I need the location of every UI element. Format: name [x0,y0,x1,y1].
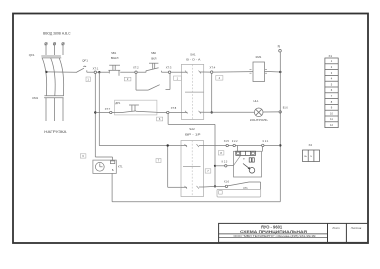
control tap junction [45,71,47,73]
svg-text:В - О - А: В - О - А [186,58,200,62]
thermostat box K2 [234,151,262,177]
phase wires top [46,45,63,55]
svg-text:ООО "МВИ ТЕХЭНЕРГО" г.Москва (: ООО "МВИ ТЕХЭНЕРГО" г.Москва (495) 931-9… [234,235,317,238]
svg-text:К 2.1: К 2.1 [263,140,269,143]
svg-text:ВВОД 380В А,В,С: ВВОД 380В А,В,С [43,32,71,36]
title block [219,223,368,242]
wire L1 XT:1 to SB1 [97,71,110,73]
XT:6 and KT1 contact [215,185,225,187]
middle control line y=112.5 [95,112,109,114]
wire: SA2 feed bus [168,146,181,188]
svg-text:Х1:6: Х1:6 [224,181,230,184]
drawing frame [13,14,368,244]
svg-text:SA1: SA1 [190,53,196,57]
svg-text:ХТ:8: ХТ:8 [171,106,177,110]
svg-text:Лист: Лист [331,226,340,230]
svg-text:ДР1: ДР1 [115,101,120,105]
right rail [279,52,281,202]
svg-text:КОНТРОЛЬ: КОНТРОЛЬ [250,118,268,122]
svg-text:ХТ:7: ХТ:7 [105,107,111,111]
svg-text:Листов: Листов [350,226,362,230]
svg-text:В1.6: В1.6 [283,106,289,109]
self-hold aux contact KM1 [136,73,170,90]
input terminals [45,43,65,46]
svg-text:ХТ:1: ХТ:1 [93,67,99,71]
node: junction coil KM1 to N rail [279,71,281,73]
svg-text:Х2: Х2 [309,143,313,147]
svg-text:Х1:5: Х1:5 [224,140,230,143]
svg-text:QF1: QF1 [82,59,88,63]
svg-text:К 2.3: К 2.3 [222,161,228,164]
svg-text:НАГРУЗКА: НАГРУЗКА [44,130,67,134]
svg-text:СХЕМА ПРИНЦИПИАЛЬНАЯ: СХЕМА ПРИНЦИПИАЛЬНАЯ [240,229,307,234]
K2.3 line [215,165,225,167]
svg-text:SB2: SB2 [151,51,157,55]
svg-text:ВЫКЛ: ВЫКЛ [111,56,119,60]
svg-text:ХТ:4: ХТ:4 [210,66,216,70]
left rails [95,72,181,160]
svg-text:ВР - 1Р: ВР - 1Р [185,133,201,137]
svg-text:QF1: QF1 [29,53,35,57]
node: junction left rail line / SA2 bus [167,144,169,146]
KT1 bottom lead and long bottom wire [112,173,280,201]
node: junction on L1 at XT:1 [98,71,100,73]
line through SA1 bottom to lamp [169,111,181,113]
line SA2 to XT:5, K2.2, K2.1, rail [204,144,227,146]
svg-text:ХТ:3: ХТ:3 [166,66,172,70]
node: junction K2.3 branch [214,165,216,167]
time relay KT1 [93,160,116,173]
photo relay box DR1 with button [115,100,157,115]
svg-text:HL1: HL1 [254,99,259,103]
svg-text:SA2: SA2 [189,127,195,131]
svg-text:КТ1: КТ1 [118,165,123,169]
node: junction XT:4 drop / lamp line [211,111,213,113]
svg-text:ВКЛ: ВКЛ [151,56,156,60]
svg-text:Х1: Х1 [329,54,333,58]
wire: XT:8 drop to branch [168,114,215,187]
svg-text:К 2.2: К 2.2 [232,140,238,143]
node: junction K2.1 line to N rail [279,144,281,146]
node: junction XT:6 line [214,185,216,187]
node: junction on left rail at line 2 [94,111,96,113]
svg-text:ХТ:2: ХТ:2 [133,66,139,70]
svg-text:SB1: SB1 [111,51,117,55]
svg-text:КМ1: КМ1 [256,55,262,59]
svg-text:КМ1: КМ1 [32,96,38,100]
wire number boxes [80,76,224,174]
